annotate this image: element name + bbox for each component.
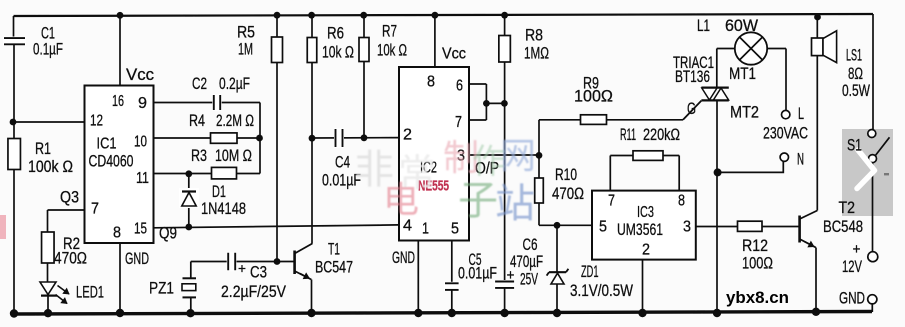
svg-text:T1: T1 bbox=[328, 240, 340, 259]
svg-text:1: 1 bbox=[422, 221, 429, 238]
svg-text:BC548: BC548 bbox=[823, 217, 863, 236]
svg-text:Vcc: Vcc bbox=[442, 46, 466, 63]
svg-text:7: 7 bbox=[91, 201, 99, 218]
svg-text:220kΩ: 220kΩ bbox=[643, 125, 680, 144]
svg-text:10k Ω: 10k Ω bbox=[322, 43, 354, 62]
svg-text:470Ω: 470Ω bbox=[552, 184, 584, 203]
svg-text:ybx8.cn: ybx8.cn bbox=[726, 288, 789, 307]
svg-text:0.2µF: 0.2µF bbox=[219, 74, 250, 93]
svg-text:R12: R12 bbox=[742, 236, 768, 255]
svg-text:100Ω: 100Ω bbox=[742, 254, 773, 273]
svg-text:+: + bbox=[238, 260, 246, 276]
svg-text:T2: T2 bbox=[839, 198, 856, 217]
svg-text:GND: GND bbox=[392, 248, 415, 267]
svg-text:15: 15 bbox=[134, 221, 147, 238]
svg-text:+: + bbox=[507, 267, 515, 284]
svg-text:电: 电 bbox=[383, 179, 419, 220]
svg-text:8: 8 bbox=[678, 193, 685, 210]
svg-text:5: 5 bbox=[599, 219, 607, 236]
svg-text:Vcc: Vcc bbox=[126, 65, 154, 84]
svg-text:60W: 60W bbox=[725, 16, 758, 35]
svg-text:LED1: LED1 bbox=[76, 283, 104, 302]
svg-text:2: 2 bbox=[403, 127, 412, 144]
svg-text:1M: 1M bbox=[238, 40, 253, 59]
svg-text:16: 16 bbox=[112, 93, 124, 110]
svg-text:UM3561: UM3561 bbox=[617, 220, 663, 239]
svg-text:BT136: BT136 bbox=[675, 67, 710, 86]
svg-text:9: 9 bbox=[138, 95, 147, 112]
svg-text:S1: S1 bbox=[847, 136, 862, 155]
svg-text:8: 8 bbox=[427, 74, 435, 91]
svg-text:LS1: LS1 bbox=[846, 46, 862, 65]
svg-text:7: 7 bbox=[608, 193, 615, 210]
svg-text:C2: C2 bbox=[192, 74, 207, 93]
svg-text:GND: GND bbox=[839, 289, 865, 308]
svg-text:7: 7 bbox=[455, 114, 462, 131]
svg-text:R1: R1 bbox=[35, 139, 51, 158]
svg-text:C4: C4 bbox=[335, 153, 350, 172]
svg-text:C3: C3 bbox=[250, 263, 267, 282]
svg-text:10k Ω: 10k Ω bbox=[377, 41, 407, 60]
svg-text:470Ω: 470Ω bbox=[54, 249, 87, 268]
svg-text:1N4148: 1N4148 bbox=[201, 199, 246, 218]
svg-text:230VAC: 230VAC bbox=[763, 124, 808, 143]
svg-text:2.2M Ω: 2.2M Ω bbox=[216, 111, 254, 130]
svg-text:MT1: MT1 bbox=[729, 64, 756, 83]
svg-text:5: 5 bbox=[451, 221, 459, 238]
svg-text:2: 2 bbox=[642, 242, 650, 259]
svg-text:1MΩ: 1MΩ bbox=[524, 44, 549, 63]
svg-text:L1: L1 bbox=[697, 16, 710, 35]
svg-text:R10: R10 bbox=[555, 165, 577, 184]
svg-text:BC547: BC547 bbox=[315, 258, 353, 277]
svg-text:R8: R8 bbox=[525, 26, 543, 45]
svg-text:R3: R3 bbox=[191, 146, 207, 165]
svg-text:IC3: IC3 bbox=[637, 204, 654, 221]
svg-text:G: G bbox=[687, 99, 696, 118]
svg-text:0.01µF: 0.01µF bbox=[458, 264, 497, 283]
svg-text:R7: R7 bbox=[382, 22, 397, 41]
svg-text:Q9: Q9 bbox=[159, 224, 177, 243]
svg-text:GND: GND bbox=[125, 249, 149, 268]
svg-text:25V: 25V bbox=[520, 270, 538, 289]
svg-text:网: 网 bbox=[500, 135, 536, 176]
svg-text:3: 3 bbox=[683, 219, 691, 236]
svg-text:0.1µF: 0.1µF bbox=[33, 40, 63, 59]
svg-text:L: L bbox=[798, 104, 804, 123]
svg-text:0.5W: 0.5W bbox=[842, 81, 870, 100]
svg-text:100k Ω: 100k Ω bbox=[28, 157, 73, 176]
svg-text:8: 8 bbox=[113, 225, 121, 242]
svg-text:R11: R11 bbox=[620, 125, 636, 144]
svg-text:PZ1: PZ1 bbox=[149, 279, 174, 298]
svg-text:10M Ω: 10M Ω bbox=[215, 146, 252, 165]
svg-text:3.1V/0.5W: 3.1V/0.5W bbox=[570, 281, 633, 300]
svg-text:2.2µF/25V: 2.2µF/25V bbox=[221, 282, 287, 301]
svg-text:10: 10 bbox=[134, 134, 147, 151]
svg-text:子: 子 bbox=[458, 179, 498, 223]
svg-text:Q3: Q3 bbox=[60, 188, 79, 207]
svg-text:+: + bbox=[853, 241, 861, 258]
svg-text:6: 6 bbox=[456, 78, 463, 95]
svg-text:N: N bbox=[797, 150, 804, 169]
svg-text:12V: 12V bbox=[842, 257, 862, 276]
svg-text:12: 12 bbox=[90, 113, 103, 130]
svg-text:ZD1: ZD1 bbox=[581, 262, 599, 281]
svg-text:4: 4 bbox=[403, 218, 412, 235]
svg-text:IC1: IC1 bbox=[97, 136, 117, 153]
svg-text:MT2: MT2 bbox=[730, 103, 759, 122]
svg-text:R4: R4 bbox=[189, 111, 205, 130]
svg-text:R6: R6 bbox=[327, 24, 344, 43]
svg-text:100Ω: 100Ω bbox=[574, 87, 613, 106]
svg-text:站: 站 bbox=[495, 182, 535, 226]
svg-text:11: 11 bbox=[136, 170, 149, 187]
svg-text:470µF: 470µF bbox=[510, 252, 543, 271]
svg-text:CD4060: CD4060 bbox=[89, 152, 134, 171]
